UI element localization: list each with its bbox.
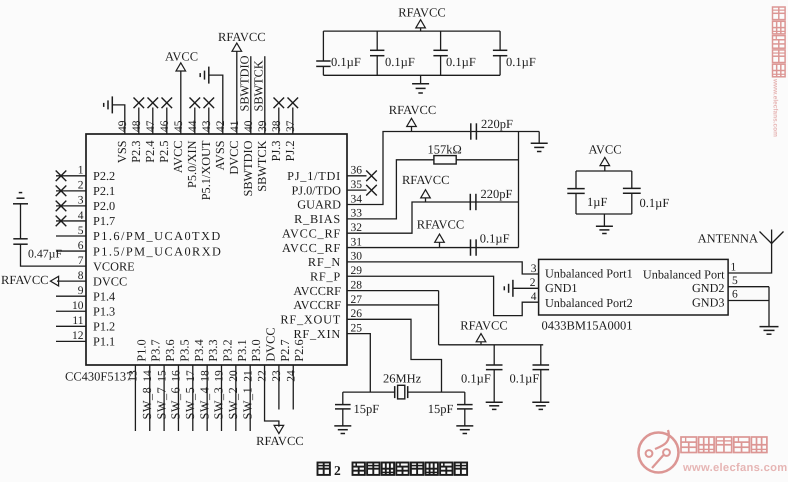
svg-text:P3.2: P3.2 (221, 339, 235, 361)
svg-text:P5.1/XOUT: P5.1/XOUT (199, 140, 213, 200)
svg-text:VSS: VSS (115, 140, 129, 163)
svg-text:0.1µF: 0.1µF (510, 371, 540, 385)
svg-text:RF_XIN: RF_XIN (293, 327, 341, 341)
svg-text:RF_P: RF_P (310, 269, 341, 283)
svg-text:220pF: 220pF (481, 117, 513, 131)
svg-text:44: 44 (187, 120, 199, 132)
svg-text:45: 45 (173, 120, 185, 132)
svg-text:RFAVCC: RFAVCC (1, 273, 48, 287)
svg-text:GND3: GND3 (692, 296, 725, 310)
svg-text:P2.3: P2.3 (129, 141, 143, 163)
svg-text:5: 5 (78, 225, 84, 237)
svg-text:RFAVCC: RFAVCC (256, 434, 303, 448)
svg-text:SBWTCK: SBWTCK (255, 140, 269, 191)
svg-text:220pF: 220pF (481, 187, 513, 201)
svg-text:36: 36 (351, 165, 363, 177)
svg-text:1: 1 (78, 165, 84, 177)
svg-text:RFAVCC: RFAVCC (402, 173, 449, 187)
svg-text:AVCCRF: AVCCRF (293, 298, 341, 312)
svg-text:R_BIAS: R_BIAS (294, 212, 341, 226)
svg-text:P1.7: P1.7 (93, 214, 115, 228)
svg-text:0.1µF: 0.1µF (640, 196, 670, 210)
svg-text:RF_N: RF_N (308, 255, 341, 269)
svg-text:14: 14 (142, 370, 154, 382)
svg-text:SBWTDIO: SBWTDIO (241, 140, 255, 196)
svg-text:AVCC_RF: AVCC_RF (282, 226, 341, 240)
svg-text:www.elecfans.com: www.elecfans.com (772, 78, 779, 137)
svg-text:SW_5: SW_5 (183, 387, 197, 420)
svg-text:0433BM15A0001: 0433BM15A0001 (542, 318, 633, 332)
svg-text:P5.0/XIN: P5.0/XIN (185, 140, 199, 188)
svg-text:15pF: 15pF (354, 402, 380, 416)
svg-text:43: 43 (201, 120, 213, 132)
svg-text:P1.1: P1.1 (93, 335, 115, 349)
svg-text:SW_6: SW_6 (169, 387, 183, 420)
svg-text:P2.2: P2.2 (93, 169, 115, 183)
svg-text:3: 3 (78, 195, 84, 207)
svg-text:P1.3: P1.3 (93, 304, 115, 318)
svg-text:19: 19 (214, 370, 226, 382)
svg-text:AVCC_RF: AVCC_RF (282, 241, 341, 255)
svg-text:SW_1: SW_1 (240, 387, 254, 420)
svg-text:P1.2: P1.2 (93, 320, 115, 334)
svg-text:9: 9 (78, 285, 84, 297)
svg-text:49: 49 (117, 120, 129, 132)
svg-text:31: 31 (351, 236, 363, 248)
svg-text:P1.5/PM_UCA0RXD: P1.5/PM_UCA0RXD (93, 244, 222, 258)
svg-text:CC430F5137: CC430F5137 (65, 370, 132, 384)
svg-text:22: 22 (257, 370, 269, 382)
svg-text:29: 29 (351, 265, 363, 277)
svg-text:P2.5: P2.5 (157, 141, 171, 163)
svg-text:PJ.3: PJ.3 (269, 141, 283, 162)
svg-text:48: 48 (131, 120, 143, 132)
svg-text:AVSS: AVSS (213, 140, 227, 170)
svg-text:P3.4: P3.4 (192, 339, 206, 361)
svg-text:37: 37 (285, 120, 297, 132)
svg-text:DVCC: DVCC (227, 141, 241, 175)
svg-text:P3.5: P3.5 (177, 339, 191, 361)
svg-text:1: 1 (731, 261, 737, 273)
svg-text:RF_XOUT: RF_XOUT (280, 313, 341, 327)
svg-text:40: 40 (243, 120, 255, 132)
svg-text:0.47µF: 0.47µF (28, 247, 62, 261)
svg-text:P1.4: P1.4 (93, 289, 115, 303)
svg-text:SW_7: SW_7 (154, 387, 168, 420)
svg-text:ANTENNA: ANTENNA (698, 232, 758, 246)
svg-text:2: 2 (334, 463, 341, 478)
svg-text:5: 5 (732, 275, 738, 287)
svg-text:10: 10 (72, 300, 84, 312)
svg-text:SW_4: SW_4 (197, 387, 211, 420)
svg-text:PJ.0/TDO: PJ.0/TDO (291, 183, 341, 197)
svg-text:41: 41 (229, 120, 241, 132)
svg-text:1µF: 1µF (587, 195, 607, 209)
svg-text:2: 2 (78, 180, 84, 192)
svg-text:23: 23 (271, 370, 283, 382)
svg-text:GND1: GND1 (545, 281, 578, 295)
svg-text:PJ.2: PJ.2 (283, 141, 297, 162)
svg-text:GND2: GND2 (692, 281, 725, 295)
svg-text:18: 18 (199, 370, 211, 382)
svg-text:33: 33 (351, 208, 363, 220)
svg-text:RFAVCC: RFAVCC (417, 218, 464, 232)
svg-text:SW_8: SW_8 (140, 387, 154, 420)
svg-text:AVCCRF: AVCCRF (293, 284, 341, 298)
svg-text:P2.1: P2.1 (93, 184, 115, 198)
svg-text:P3.7: P3.7 (149, 339, 163, 361)
svg-text:P3.6: P3.6 (163, 339, 177, 361)
svg-text:28: 28 (351, 279, 363, 291)
svg-text:39: 39 (257, 120, 269, 132)
svg-text:25: 25 (351, 322, 363, 334)
svg-text:27: 27 (351, 294, 363, 306)
svg-text:13: 13 (128, 370, 140, 382)
svg-text:0.1µF: 0.1µF (331, 55, 361, 69)
svg-text:Unbalanced Port2: Unbalanced Port2 (545, 296, 633, 310)
svg-text:17: 17 (185, 370, 197, 382)
svg-text:SW_2: SW_2 (226, 387, 240, 420)
svg-text:SW_3: SW_3 (212, 387, 226, 420)
svg-text:P1.0: P1.0 (134, 339, 148, 361)
svg-text:21: 21 (242, 370, 254, 382)
svg-text:P2.6: P2.6 (292, 339, 306, 361)
svg-text:PJ_1/TDI: PJ_1/TDI (287, 169, 341, 183)
svg-text:12: 12 (72, 330, 84, 342)
svg-text:0.1µF: 0.1µF (385, 55, 415, 69)
svg-text:3: 3 (531, 263, 537, 275)
svg-text:11: 11 (72, 315, 83, 327)
svg-text:8: 8 (78, 270, 84, 282)
svg-text:P3.3: P3.3 (206, 339, 220, 361)
svg-text:AVCC: AVCC (588, 143, 621, 157)
svg-text:47: 47 (145, 120, 157, 132)
svg-text:35: 35 (351, 179, 363, 191)
svg-text:P3.1: P3.1 (235, 339, 249, 361)
svg-text:157kΩ: 157kΩ (427, 143, 461, 157)
svg-text:Unbalanced Port1: Unbalanced Port1 (545, 266, 633, 280)
svg-text:24: 24 (285, 370, 297, 382)
svg-text:26MHz: 26MHz (383, 372, 422, 386)
svg-text:42: 42 (215, 120, 227, 132)
svg-text:GUARD: GUARD (297, 198, 341, 212)
svg-text:30: 30 (351, 251, 363, 263)
svg-text:38: 38 (271, 120, 283, 132)
svg-text:Unbalanced Port: Unbalanced Port (643, 268, 725, 282)
svg-text:AVCC: AVCC (165, 50, 198, 64)
svg-text:26: 26 (351, 308, 363, 320)
svg-text:AVCC: AVCC (171, 141, 185, 174)
svg-text:2: 2 (530, 277, 536, 289)
svg-text:0.1µF: 0.1µF (446, 55, 476, 69)
svg-text:RFAVCC: RFAVCC (389, 103, 436, 117)
svg-text:RFAVCC: RFAVCC (398, 5, 445, 19)
svg-text:DVCC: DVCC (264, 327, 278, 361)
svg-text:0.1µF: 0.1µF (461, 371, 491, 385)
svg-text:P3.0: P3.0 (249, 339, 263, 361)
svg-text:VCORE: VCORE (93, 259, 135, 273)
svg-text:4: 4 (531, 291, 537, 303)
svg-text:P2.4: P2.4 (143, 141, 157, 163)
svg-text:20: 20 (228, 370, 240, 382)
svg-text:6: 6 (78, 240, 84, 252)
svg-text:RFAVCC: RFAVCC (460, 318, 507, 332)
svg-text:P2.0: P2.0 (93, 199, 115, 213)
svg-text:RFAVCC: RFAVCC (218, 30, 265, 44)
svg-text:SBWTCK: SBWTCK (252, 60, 266, 111)
svg-text:15pF: 15pF (428, 402, 454, 416)
svg-text:32: 32 (351, 222, 363, 234)
svg-text:DVCC: DVCC (93, 274, 127, 288)
svg-text:SBWTDIO: SBWTDIO (238, 55, 252, 111)
svg-text:34: 34 (351, 193, 363, 205)
svg-text:0.1µF: 0.1µF (480, 231, 510, 245)
svg-text:7: 7 (78, 255, 84, 267)
svg-text:4: 4 (78, 210, 84, 222)
svg-text:46: 46 (159, 120, 171, 132)
svg-text:P2.7: P2.7 (278, 339, 292, 361)
svg-text:15: 15 (156, 370, 168, 382)
svg-text:16: 16 (171, 370, 183, 382)
svg-text:www.elecfans.com: www.elecfans.com (682, 462, 788, 474)
svg-text:6: 6 (732, 289, 738, 301)
svg-text:P1.6/PM_UCA0TXD: P1.6/PM_UCA0TXD (93, 229, 222, 243)
svg-text:0.1µF: 0.1µF (506, 55, 536, 69)
